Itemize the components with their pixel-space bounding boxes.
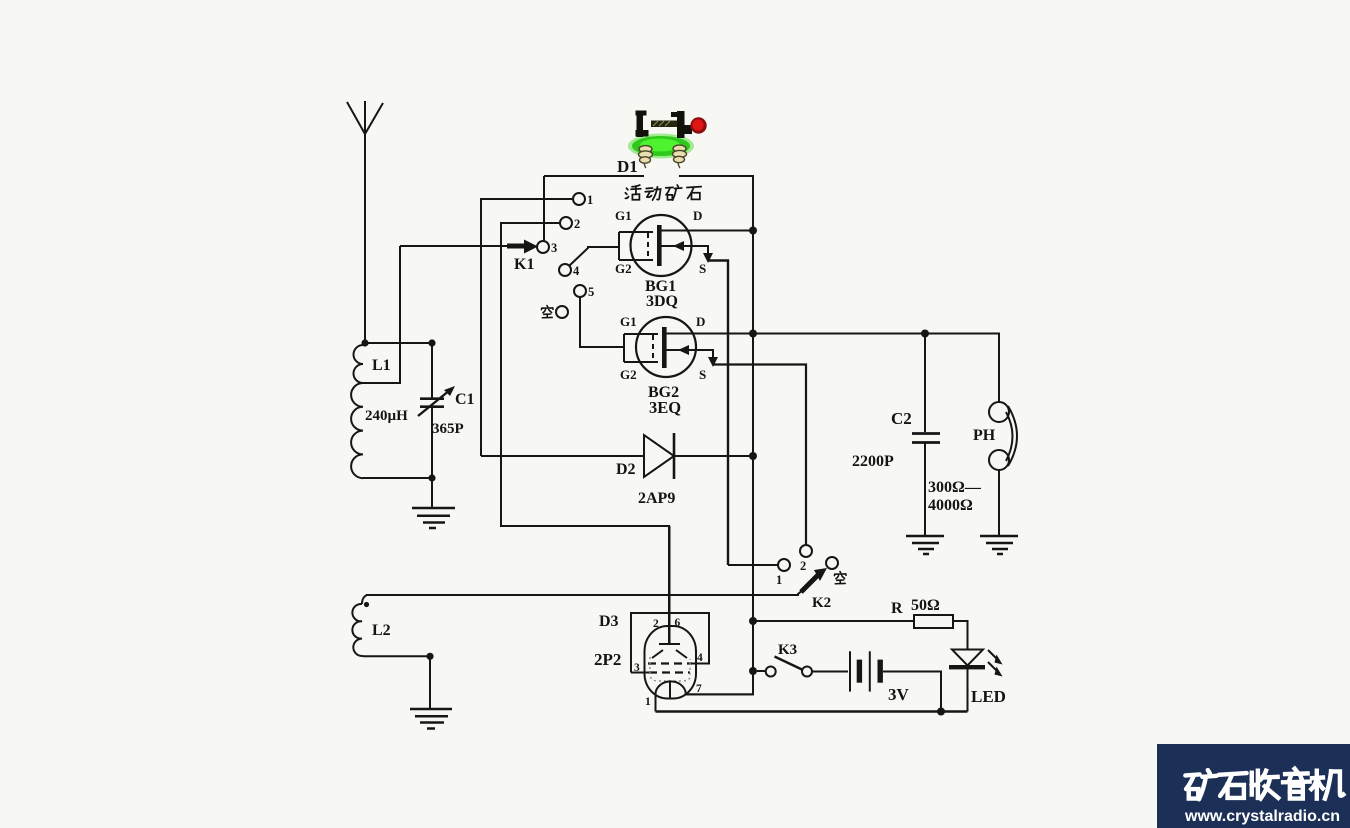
- svg-text:L1: L1: [372, 357, 391, 374]
- svg-text:K2: K2: [812, 595, 831, 611]
- node D2 cathode on bus: [749, 452, 757, 460]
- wire L2 to K2 wiper: [366, 590, 803, 595]
- wire K3 to battery: [812, 671, 848, 673]
- svg-text:3: 3: [551, 241, 557, 255]
- label empty (K2): [834, 572, 846, 584]
- tube D3 filament: [656, 681, 686, 698]
- wire D1 right / main bus: [679, 176, 753, 694]
- label BG1 pins: [615, 208, 706, 276]
- tube D3 grid 1: [652, 650, 687, 658]
- svg-text:2AP9: 2AP9: [638, 490, 675, 507]
- svg-text:5: 5: [588, 285, 594, 299]
- svg-text:2: 2: [574, 217, 580, 231]
- antenna: [347, 101, 383, 343]
- svg-text:1: 1: [776, 573, 782, 587]
- node C2 top: [921, 330, 929, 338]
- svg-text:3DQ: 3DQ: [646, 293, 678, 310]
- svg-text:1: 1: [645, 696, 651, 708]
- svg-text:2200P: 2200P: [852, 453, 894, 470]
- node C1 top: [428, 339, 435, 346]
- switch K1 contact 2: [560, 217, 572, 229]
- wire contact4 to BG1 gate: [569, 247, 619, 266]
- node bottom wire: [937, 708, 945, 716]
- svg-text:D2: D2: [616, 461, 636, 478]
- switch K2 contact 2: [800, 545, 812, 557]
- wire L1 bottom to C1 bottom: [363, 477, 432, 479]
- svg-text:50Ω: 50Ω: [911, 597, 940, 614]
- wire bus to K3: [757, 670, 766, 672]
- inductor L2: [352, 595, 369, 656]
- label K2 contact numbers: [776, 559, 806, 587]
- label D3 pin numbers: [634, 617, 703, 708]
- tube D3 outer connection box: [631, 613, 709, 673]
- ground (L2): [410, 709, 452, 729]
- wire R to LED: [953, 621, 968, 649]
- inductor L1: [351, 343, 363, 478]
- label huodong kuangshi (movable crystal): [625, 185, 701, 200]
- ground (C1): [412, 508, 455, 528]
- svg-text:D3: D3: [599, 613, 619, 630]
- switch K1 contact 3: [537, 241, 549, 253]
- transistor BG2: [624, 317, 925, 545]
- svg-text:3V: 3V: [888, 685, 910, 704]
- svg-text:3EQ: 3EQ: [649, 398, 681, 417]
- svg-text:2: 2: [800, 559, 806, 573]
- switch K1 contact 5: [574, 285, 586, 297]
- svg-text:300Ω—: 300Ω—: [928, 479, 982, 496]
- switch K1 wiper arrow: [507, 240, 538, 254]
- svg-text:2: 2: [653, 618, 659, 630]
- svg-text:C2: C2: [891, 409, 912, 428]
- LED triangle: [952, 650, 983, 666]
- transistor BG1: [619, 215, 753, 565]
- svg-text:G2: G2: [620, 367, 637, 382]
- switch K1 empty contact: [556, 306, 568, 318]
- switch K1 contact 1: [573, 193, 585, 205]
- node BG2 drain on bus: [749, 330, 757, 338]
- LED emission arrows: [988, 650, 1003, 677]
- wire L2 bottom: [368, 655, 430, 657]
- watermark bar: [1157, 744, 1350, 828]
- svg-text:G1: G1: [620, 314, 637, 329]
- wire L1 tap: [363, 246, 400, 383]
- wire D1 left: [544, 175, 644, 177]
- D1 leg left: [639, 146, 653, 168]
- tube D3 beam plates (dotted): [650, 657, 690, 681]
- wire L1 top to C1: [365, 342, 432, 344]
- svg-text:S: S: [699, 261, 706, 276]
- bottom wire (filament return): [656, 710, 968, 713]
- wire L2 to ground: [429, 656, 431, 709]
- LED lead down: [967, 669, 969, 712]
- wire contact5 to BG2 gate: [580, 297, 624, 347]
- svg-text:D: D: [693, 208, 702, 223]
- detector D1 photo: [628, 111, 707, 169]
- svg-text:4000Ω: 4000Ω: [928, 497, 973, 514]
- tube D3 pin 1 wire: [655, 693, 657, 712]
- wire bus to PH: [925, 334, 999, 403]
- svg-text:PH: PH: [973, 427, 996, 444]
- wire K2 contact1: [728, 564, 778, 566]
- wire contact1 to vertical: [481, 199, 573, 456]
- battery GB 3V: [850, 651, 883, 691]
- capacitor C1: [418, 343, 455, 508]
- svg-text:1: 1: [587, 193, 593, 207]
- switch K3 lever: [775, 657, 804, 671]
- ground (C2): [906, 536, 944, 554]
- tube D3 pin 7 wire: [685, 693, 754, 695]
- switch K3 contact right: [802, 667, 812, 677]
- tube D3 grid 2: [648, 662, 692, 664]
- wire R feed: [753, 620, 914, 622]
- svg-text:C1: C1: [455, 391, 475, 408]
- diode D2: [481, 433, 753, 479]
- logo text kuangshi shouyinji: [1185, 769, 1343, 800]
- svg-text:2P2: 2P2: [594, 650, 621, 669]
- label empty (K1): [541, 306, 553, 318]
- capacitor C2: [912, 334, 940, 536]
- svg-text:240µH: 240µH: [365, 408, 408, 424]
- svg-text:4: 4: [697, 652, 703, 664]
- svg-text:LED: LED: [971, 687, 1006, 706]
- svg-text:4: 4: [573, 264, 580, 278]
- tube D3 envelope: [645, 626, 697, 699]
- node L2 bottom: [426, 653, 433, 660]
- svg-text:K3: K3: [778, 642, 797, 658]
- switch K2 wiper arrow: [801, 568, 827, 592]
- wire contact2 to vertical: [501, 223, 669, 644]
- node BG1 drain on bus: [749, 227, 757, 235]
- wire battery to bottom: [883, 672, 941, 712]
- wire K1 wiper feed: [400, 245, 509, 247]
- LED cathode bar: [949, 665, 985, 669]
- svg-text:www.crystalradio.cn: www.crystalradio.cn: [1184, 808, 1340, 825]
- ground (PH): [980, 536, 1018, 554]
- wire contact3 up to D1 line: [543, 176, 545, 241]
- svg-text:S: S: [699, 367, 706, 382]
- svg-text:L2: L2: [372, 622, 391, 639]
- node C1 bottom: [428, 474, 435, 481]
- switch K3 contact left: [766, 667, 776, 677]
- svg-text:6: 6: [675, 617, 681, 629]
- switch K2 empty contact: [826, 557, 838, 569]
- svg-text:G2: G2: [615, 261, 632, 276]
- D1 leg right: [673, 145, 687, 168]
- tube D3 grid 3: [649, 671, 690, 673]
- earphone PH: [989, 402, 1017, 535]
- svg-text:D1: D1: [617, 157, 638, 176]
- svg-text:R: R: [891, 600, 903, 617]
- label BG2 pins: [620, 314, 706, 382]
- svg-text:365P: 365P: [432, 421, 464, 437]
- resistor R: [914, 615, 953, 628]
- svg-text:D: D: [696, 314, 705, 329]
- node R feed on bus: [749, 617, 757, 625]
- svg-text:7: 7: [696, 683, 702, 695]
- label K1 contact numbers: [551, 193, 594, 299]
- tube D3 anode: [659, 526, 680, 644]
- svg-text:K1: K1: [514, 256, 534, 273]
- node K3 feed on bus: [749, 667, 757, 675]
- switch K2 contact 1: [778, 559, 790, 571]
- svg-text:G1: G1: [615, 208, 632, 223]
- switch K1 contact 4: [559, 264, 571, 276]
- node antenna/L1 top: [361, 339, 368, 346]
- svg-text:3: 3: [634, 662, 640, 674]
